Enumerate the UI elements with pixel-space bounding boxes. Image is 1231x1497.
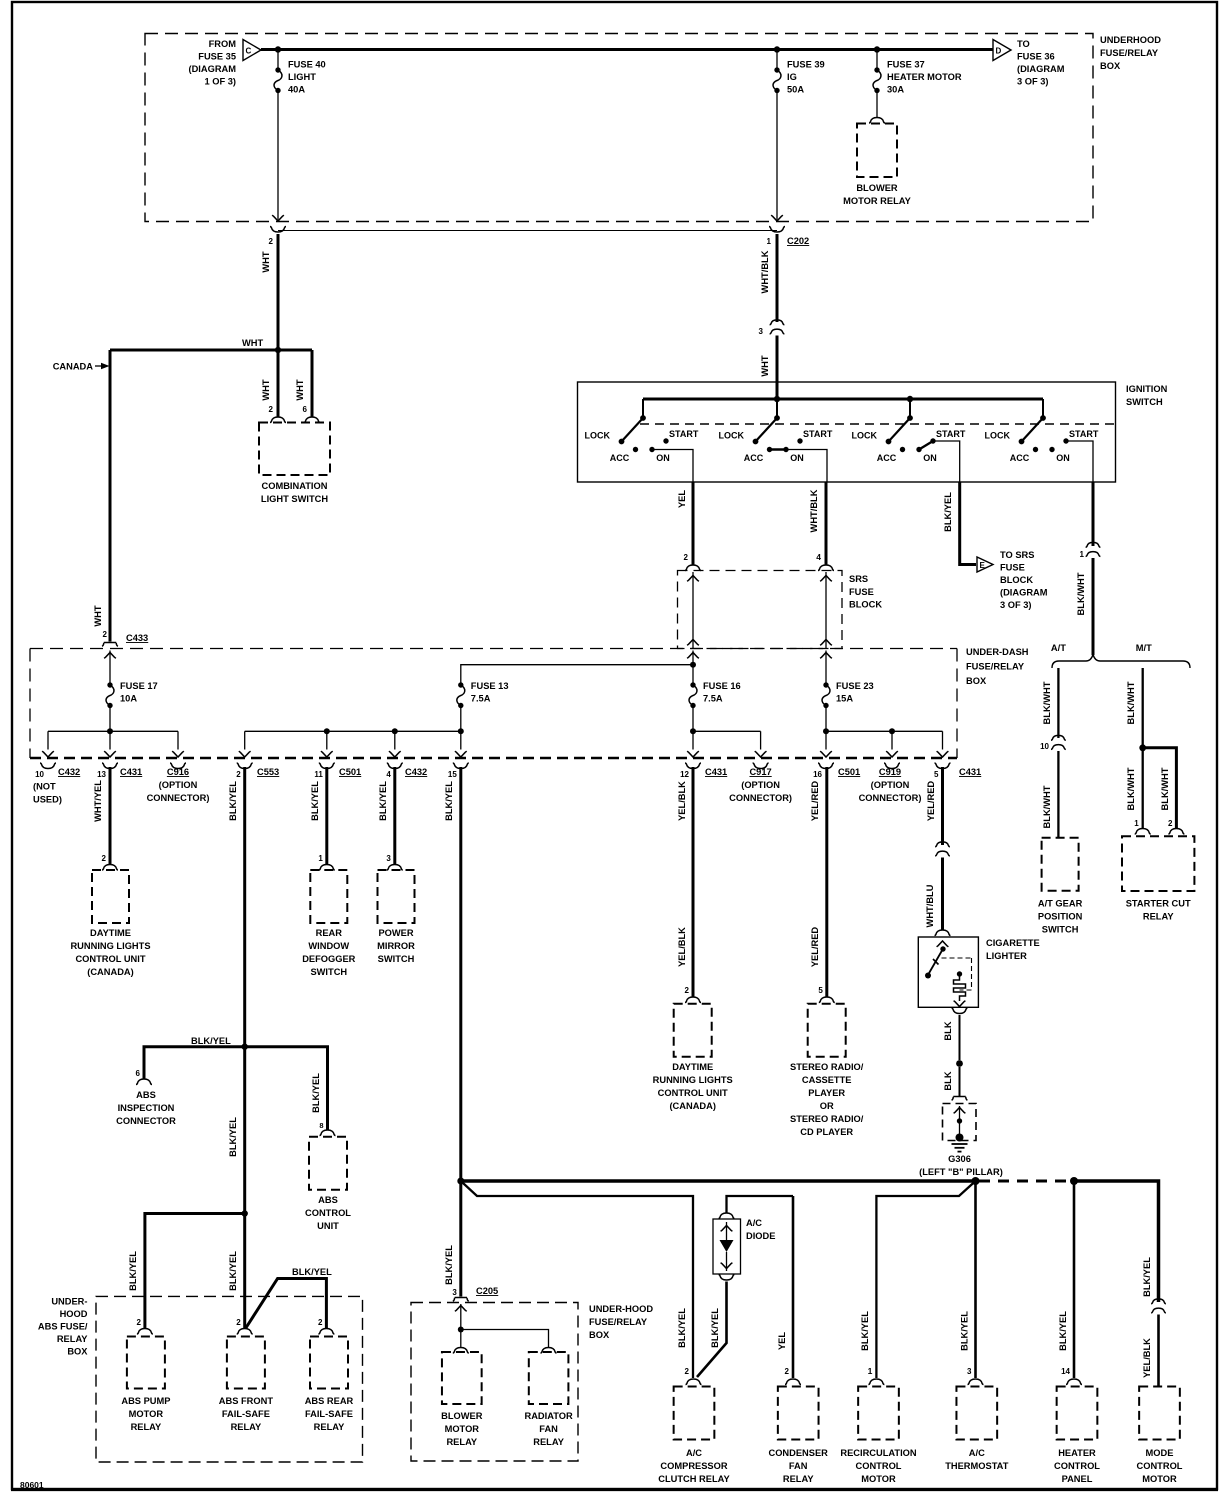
svg-text:G306: G306	[948, 1154, 971, 1164]
svg-text:C432: C432	[405, 767, 427, 777]
svg-text:SWITCH: SWITCH	[1126, 397, 1163, 407]
svg-text:DEFOGGER: DEFOGGER	[302, 954, 355, 964]
svg-text:12: 12	[680, 770, 689, 779]
svg-text:RUNNING LIGHTS: RUNNING LIGHTS	[70, 941, 150, 951]
svg-text:FUSE/RELAY: FUSE/RELAY	[589, 1317, 648, 1327]
svg-text:FUSE 16: FUSE 16	[703, 681, 741, 691]
fuse F40 LIGHT 40A	[274, 50, 326, 95]
svg-text:BLK/WHT: BLK/WHT	[1126, 681, 1136, 724]
condenser fan relay	[768, 1387, 828, 1485]
starter cut relay	[1122, 836, 1194, 921]
svg-text:DAYTIME: DAYTIME	[90, 928, 131, 938]
svg-text:MOTOR: MOTOR	[445, 1424, 480, 1434]
svg-text:1: 1	[868, 1366, 873, 1376]
ground G306 terminal (dashed)	[943, 1104, 977, 1142]
svg-text:15: 15	[448, 770, 457, 779]
svg-text:POSITION: POSITION	[1038, 912, 1083, 922]
fuse F16 7.5A	[687, 651, 741, 735]
svg-text:(DIAGRAM: (DIAGRAM	[1000, 588, 1048, 598]
node M/T branch splice	[1139, 744, 1146, 751]
svg-text:(CANADA): (CANADA)	[87, 967, 133, 977]
svg-text:HEATER MOTOR: HEATER MOTOR	[887, 72, 962, 82]
svg-text:2: 2	[136, 1318, 141, 1327]
svg-text:BOX: BOX	[1100, 61, 1121, 71]
connector triangle C from fuse 35	[243, 40, 261, 61]
stereo radio cassette/CD player	[790, 1004, 864, 1137]
svg-text:3: 3	[759, 327, 764, 336]
svg-text:CONTROL UNIT: CONTROL UNIT	[658, 1088, 728, 1098]
in-line connector mode control motor wire	[1151, 1299, 1166, 1313]
A/C diode	[713, 1213, 741, 1280]
svg-text:YEL/RED: YEL/RED	[810, 781, 820, 822]
svg-text:IGNITION: IGNITION	[1126, 384, 1168, 394]
node ABS relay splice	[242, 1210, 248, 1216]
wire BLK to G306	[943, 1067, 967, 1100]
svg-text:A/C: A/C	[746, 1218, 762, 1228]
svg-text:13: 13	[97, 770, 106, 779]
ignition switch box	[578, 382, 1116, 482]
svg-text:FUSE 37: FUSE 37	[887, 60, 925, 70]
svg-text:LOCK: LOCK	[985, 431, 1011, 441]
wire BLK/YEL to ABS front fail-safe relay pin 2	[228, 1214, 253, 1335]
svg-text:3: 3	[386, 854, 391, 863]
svg-text:LOCK: LOCK	[719, 431, 745, 441]
svg-text:YEL: YEL	[677, 490, 687, 508]
svg-text:BLK/YEL: BLK/YEL	[1058, 1311, 1068, 1351]
svg-text:CONTROL UNIT: CONTROL UNIT	[75, 954, 145, 964]
svg-text:C433: C433	[126, 633, 148, 643]
svg-text:FUSE 13: FUSE 13	[471, 681, 509, 691]
svg-text:2: 2	[269, 405, 274, 414]
wire drop to C919 option connector	[859, 731, 922, 803]
svg-text:C432: C432	[58, 767, 80, 777]
wire ground bus BLK/YEL	[461, 1179, 976, 1183]
wire gang 3 START output	[933, 441, 960, 482]
A/T gear position switch	[1038, 838, 1083, 935]
svg-text:WHT/YEL: WHT/YEL	[93, 780, 103, 822]
svg-text:HOOD: HOOD	[60, 1309, 88, 1319]
svg-text:FUSE 40: FUSE 40	[288, 60, 326, 70]
svg-text:START: START	[803, 429, 833, 439]
svg-text:BLOWER: BLOWER	[441, 1411, 483, 1421]
svg-text:BLK/YEL: BLK/YEL	[677, 1308, 687, 1348]
svg-text:FAIL-SAFE: FAIL-SAFE	[305, 1409, 353, 1419]
svg-text:BOX: BOX	[966, 676, 987, 686]
svg-text:D: D	[996, 47, 1002, 56]
wire fuse 17 distribution	[48, 730, 178, 732]
wire YEL/RED to stereo radio	[810, 767, 835, 1003]
svg-text:(OPTION: (OPTION	[159, 780, 198, 790]
wire fuse 39 down to C202	[771, 91, 783, 222]
svg-text:8: 8	[319, 1121, 323, 1130]
svg-text:MOTOR RELAY: MOTOR RELAY	[843, 196, 911, 206]
node WHT junction	[242, 338, 281, 353]
underhood fuse/relay box (dashed)	[145, 34, 1093, 222]
wire YEL/RED to cigarette lighter	[926, 767, 943, 845]
ground symbol G306	[952, 1144, 968, 1152]
wire to ABS inspection connector pin 6	[136, 1047, 245, 1085]
svg-text:1 OF 3): 1 OF 3)	[204, 77, 236, 87]
wire BLK/YEL C553 pin 2 down	[228, 767, 245, 1047]
heater control panel	[1054, 1387, 1100, 1485]
under-hood ABS fuse/relay box (dashed)	[96, 1296, 363, 1462]
wire drop to C431 pin 12	[680, 731, 727, 779]
diagram number 80601	[20, 1480, 44, 1490]
svg-text:C431: C431	[705, 767, 727, 777]
svg-text:BLK: BLK	[943, 1021, 953, 1040]
svg-text:(NOT: (NOT	[33, 782, 56, 792]
wire BLK/YEL to ABS pump motor relay pin 2	[128, 1214, 245, 1335]
svg-text:BLK/YEL: BLK/YEL	[710, 1308, 720, 1348]
wire BLK/YEL to C205	[444, 1181, 461, 1297]
svg-text:C205: C205	[476, 1286, 498, 1296]
svg-text:FUSE/RELAY: FUSE/RELAY	[1100, 48, 1159, 58]
svg-text:UNDERHOOD: UNDERHOOD	[1100, 35, 1161, 45]
label under-dash fuse/relay box	[966, 647, 1029, 686]
label ignition switch	[1126, 384, 1168, 407]
label SRS fuse block	[849, 574, 882, 610]
svg-text:ACC: ACC	[610, 453, 630, 463]
svg-text:2: 2	[685, 986, 690, 995]
svg-text:STEREO RADIO/: STEREO RADIO/	[790, 1114, 864, 1124]
svg-text:BOX: BOX	[589, 1330, 610, 1340]
wire WHT to combination light switch pin 2	[261, 350, 278, 417]
wire BLK below cigarette lighter	[943, 1008, 968, 1060]
svg-text:FUSE 39: FUSE 39	[787, 60, 825, 70]
svg-text:C553: C553	[257, 767, 279, 777]
label CANADA with arrow	[53, 362, 110, 372]
wire WHT/BLK from C202 pin 1	[760, 234, 777, 322]
label to fuse 36 diagram 3 of 3	[1017, 39, 1065, 87]
svg-text:MOTOR: MOTOR	[129, 1409, 164, 1419]
svg-text:POWER: POWER	[378, 928, 413, 938]
wire WHT/BLK ignition to SRS fuse block pin 4	[809, 482, 834, 571]
fuse F13 7.5A	[457, 681, 509, 734]
wire from SRS row to fuse 13	[461, 665, 693, 685]
wire BLK/YEL pin 15 down to ground bus	[444, 767, 461, 1181]
svg-text:WHT: WHT	[261, 379, 271, 400]
svg-text:TO SRS: TO SRS	[1000, 550, 1034, 560]
svg-text:CONTROL: CONTROL	[856, 1461, 902, 1471]
svg-text:A/T GEAR: A/T GEAR	[1038, 899, 1083, 909]
svg-text:RELAY: RELAY	[57, 1334, 88, 1344]
svg-text:BLK/YEL: BLK/YEL	[1142, 1257, 1152, 1297]
svg-text:ACC: ACC	[1010, 453, 1030, 463]
wire BLK/WHT A/T branch	[1042, 668, 1058, 738]
svg-text:CONNECTOR): CONNECTOR)	[729, 793, 792, 803]
svg-text:THERMOSTAT: THERMOSTAT	[945, 1461, 1008, 1471]
svg-text:1: 1	[767, 237, 772, 246]
wire BLK/WHT to starter cut relay pin 1	[1126, 748, 1151, 834]
svg-text:BLOWER: BLOWER	[856, 183, 898, 193]
wire WHT/BLU to cigarette lighter	[925, 858, 951, 936]
svg-text:BLK/YEL: BLK/YEL	[292, 1267, 332, 1277]
wire gang 2 ON output	[785, 450, 827, 483]
label to SRS fuse block diagram 3 of 3	[1000, 550, 1048, 610]
label cigarette lighter	[986, 938, 1040, 961]
connector C433 pin 2	[102, 630, 148, 646]
svg-text:C202: C202	[787, 236, 809, 246]
svg-text:PANEL: PANEL	[1062, 1474, 1093, 1484]
wire drop to pin 15	[448, 731, 469, 779]
svg-text:11: 11	[314, 770, 323, 779]
svg-text:2: 2	[236, 1318, 241, 1327]
in-line connector 1	[1080, 542, 1101, 559]
ABS rear fail-safe relay	[305, 1337, 354, 1433]
ABS control unit	[305, 1137, 351, 1231]
svg-text:2: 2	[102, 854, 107, 863]
svg-text:ABS: ABS	[318, 1195, 338, 1205]
svg-text:ABS REAR: ABS REAR	[305, 1396, 354, 1406]
wire fuse 37 to blower motor relay	[869, 91, 885, 124]
svg-text:BLK/YEL: BLK/YEL	[960, 1311, 970, 1351]
wire WHT to combination light switch pin 6	[295, 350, 312, 417]
svg-text:OR: OR	[820, 1101, 834, 1111]
svg-text:ABS FRONT: ABS FRONT	[219, 1396, 274, 1406]
svg-text:1: 1	[1080, 550, 1085, 559]
svg-text:UNDER-: UNDER-	[51, 1297, 87, 1307]
svg-text:WHT: WHT	[242, 338, 263, 348]
svg-text:YEL/BLK: YEL/BLK	[1142, 1338, 1152, 1378]
svg-text:BLK/YEL: BLK/YEL	[860, 1311, 870, 1351]
svg-text:YEL/BLK: YEL/BLK	[677, 927, 687, 967]
svg-text:ABS PUMP: ABS PUMP	[121, 1396, 170, 1406]
svg-text:BLOCK: BLOCK	[849, 600, 882, 610]
label G306 left B pillar	[919, 1154, 1003, 1177]
svg-text:RELAY: RELAY	[1143, 912, 1174, 922]
wire BLK/YEL to recirculation control motor pin 1	[860, 1181, 976, 1385]
svg-text:BLK/YEL: BLK/YEL	[191, 1036, 231, 1046]
svg-text:CONTROL: CONTROL	[1137, 1461, 1183, 1471]
wire WHT to ignition switch	[760, 336, 777, 400]
svg-text:TO: TO	[1017, 39, 1030, 49]
connector A/C compressor clutch relay pin 2	[686, 1379, 702, 1385]
svg-text:(CANADA): (CANADA)	[669, 1101, 715, 1111]
svg-text:RUNNING LIGHTS: RUNNING LIGHTS	[653, 1075, 733, 1085]
rear window defogger switch	[302, 870, 355, 977]
svg-text:WHT/BLK: WHT/BLK	[760, 250, 770, 293]
SRS fuse block (dashed)	[678, 571, 843, 649]
svg-text:RECIRCULATION: RECIRCULATION	[840, 1448, 917, 1458]
svg-text:10: 10	[1040, 742, 1049, 751]
wire ignition internal bus	[643, 396, 1043, 402]
wire gang 1 ON output	[652, 450, 693, 483]
svg-text:HEATER: HEATER	[1058, 1448, 1096, 1458]
svg-text:(DIAGRAM: (DIAGRAM	[188, 64, 236, 74]
svg-text:2: 2	[685, 1367, 690, 1376]
svg-text:BLK/YEL: BLK/YEL	[228, 781, 238, 821]
svg-text:ON: ON	[923, 453, 937, 463]
daytime running lights control unit (canada) left	[70, 870, 150, 977]
wire WHT from C202 pin 2	[261, 234, 278, 350]
svg-text:SWITCH: SWITCH	[378, 954, 415, 964]
svg-text:COMBINATION: COMBINATION	[262, 481, 328, 491]
svg-text:BLK/YEL: BLK/YEL	[311, 1073, 321, 1113]
svg-text:COMPRESSOR: COMPRESSOR	[660, 1461, 727, 1471]
wire fuse 40 down to C202 row	[272, 91, 284, 222]
under-hood fuse/relay box bottom (dashed)	[411, 1303, 578, 1462]
svg-text:FAN: FAN	[539, 1424, 558, 1434]
wire BLK/YEL to ABS control unit pin 8	[245, 1047, 336, 1136]
svg-text:3: 3	[967, 1367, 972, 1376]
svg-text:E: E	[980, 561, 986, 570]
wire drop to C432 pin 10 (not used)	[33, 731, 80, 804]
svg-text:DIODE: DIODE	[746, 1231, 775, 1241]
svg-text:BLK/YEL: BLK/YEL	[378, 781, 388, 821]
svg-text:MODE: MODE	[1146, 1448, 1174, 1458]
svg-text:BLK/WHT: BLK/WHT	[1160, 767, 1170, 810]
wire WHT down to C433	[93, 350, 110, 642]
svg-text:BLK/YEL: BLK/YEL	[943, 492, 953, 532]
svg-text:C431: C431	[959, 767, 981, 777]
svg-text:30A: 30A	[887, 85, 904, 95]
wire gang 4 START output	[1066, 441, 1093, 482]
ABS front fail-safe relay	[219, 1337, 274, 1433]
wire fuse 13 distribution	[245, 728, 461, 734]
svg-text:MOTOR: MOTOR	[861, 1474, 896, 1484]
wire SRS block internal right	[820, 572, 832, 649]
svg-text:FUSE 23: FUSE 23	[836, 681, 874, 691]
svg-text:ABS FUSE/: ABS FUSE/	[38, 1322, 88, 1332]
svg-text:BLK/YEL: BLK/YEL	[228, 1251, 238, 1291]
svg-text:2: 2	[1168, 819, 1173, 828]
svg-text:BLK/YEL: BLK/YEL	[444, 1245, 454, 1285]
svg-text:16: 16	[813, 770, 822, 779]
svg-text:CONNECTOR: CONNECTOR	[116, 1116, 176, 1126]
label ABS inspection connector	[116, 1090, 176, 1126]
svg-text:FUSE: FUSE	[849, 587, 874, 597]
node ground bus G306 junction	[972, 1177, 980, 1185]
svg-text:BOX: BOX	[67, 1347, 88, 1357]
svg-text:7.5A: 7.5A	[703, 694, 723, 704]
ignition switch gang 3 (ON-START bridged)	[852, 399, 966, 463]
svg-text:UNIT: UNIT	[317, 1221, 339, 1231]
svg-text:RELAY: RELAY	[446, 1437, 477, 1447]
svg-text:4: 4	[386, 770, 391, 779]
wire BLK/YEL to power mirror switch	[378, 767, 403, 870]
node bus to fuse 40	[275, 46, 281, 52]
svg-text:LOCK: LOCK	[852, 431, 878, 441]
svg-text:5: 5	[818, 986, 823, 995]
under-dash fuse/relay box (dashed)	[30, 649, 957, 759]
wire WHT/YEL to daytime running lights control unit	[93, 767, 118, 870]
svg-text:M/T: M/T	[1136, 643, 1152, 653]
svg-text:FAN: FAN	[789, 1461, 808, 1471]
svg-text:CONNECTOR): CONNECTOR)	[147, 793, 210, 803]
A/C thermostat	[945, 1387, 1008, 1472]
svg-text:WHT/BLK: WHT/BLK	[809, 489, 819, 532]
svg-text:10A: 10A	[120, 694, 137, 704]
node bus to fuse 37	[874, 46, 880, 52]
label under-hood ABS fuse/relay box	[38, 1297, 88, 1357]
wire ground bus dashed section	[979, 1180, 1071, 1183]
wire BLK/WHT ignition gang 4 down	[1092, 482, 1095, 546]
wire BLK/WHT M/T branch	[1126, 668, 1143, 748]
label under-hood fuse/relay box bottom	[589, 1304, 653, 1340]
svg-text:START: START	[936, 429, 966, 439]
svg-text:BLK/WHT: BLK/WHT	[1126, 767, 1136, 810]
fuse F17 10A	[104, 651, 158, 735]
A/T M/T split brace	[1051, 643, 1190, 668]
wire YEL/BLK to mode control motor	[1142, 1315, 1159, 1387]
fuse F23 15A	[820, 651, 874, 735]
ignition switch gang 2 (ACC-ON bridged)	[719, 399, 833, 463]
svg-text:C501: C501	[339, 767, 361, 777]
svg-text:YEL/RED: YEL/RED	[926, 781, 936, 822]
svg-text:C917: C917	[749, 767, 771, 777]
wire SRS block internal left	[687, 572, 699, 649]
svg-text:BLK/YEL: BLK/YEL	[444, 781, 454, 821]
svg-text:STARTER CUT: STARTER CUT	[1126, 899, 1191, 909]
svg-text:YEL/BLK: YEL/BLK	[677, 781, 687, 821]
svg-text:(OPTION: (OPTION	[871, 780, 910, 790]
wire main bus from C to D	[261, 48, 993, 51]
svg-text:LIGHT: LIGHT	[288, 72, 316, 82]
connector C202 pin 1	[767, 227, 810, 247]
svg-text:C431: C431	[120, 767, 142, 777]
wire drop to C553 pin 2	[236, 731, 279, 779]
wire C205 into box	[455, 1304, 467, 1333]
svg-text:USED): USED)	[33, 795, 62, 805]
in-line connector on cigarette lighter wire	[935, 842, 950, 856]
svg-text:RELAY: RELAY	[231, 1422, 262, 1432]
svg-text:PLAYER: PLAYER	[808, 1088, 845, 1098]
svg-text:C916: C916	[167, 767, 189, 777]
svg-text:2: 2	[236, 770, 241, 779]
recirculation control motor	[840, 1387, 917, 1485]
fuse F37 HEATER MOTOR 30A	[873, 50, 962, 95]
svg-text:BLK/YEL: BLK/YEL	[128, 1251, 138, 1291]
svg-text:1: 1	[1134, 819, 1139, 828]
svg-text:WHT: WHT	[93, 605, 103, 626]
svg-text:10: 10	[35, 770, 44, 779]
daytime running lights control unit (canada) right	[653, 1004, 733, 1111]
connector C205 pin 3	[452, 1286, 498, 1301]
svg-text:CASSETTE: CASSETTE	[802, 1075, 852, 1085]
in-line connector 3	[759, 320, 785, 336]
combination light switch	[259, 423, 330, 505]
svg-text:CONTROL: CONTROL	[1054, 1461, 1100, 1471]
svg-text:SWITCH: SWITCH	[310, 967, 347, 977]
wire BLK/WHT to A/T gear position switch	[1042, 751, 1058, 838]
svg-text:BLK/WHT: BLK/WHT	[1042, 681, 1052, 724]
connector triangle D to fuse 36	[993, 40, 1011, 61]
svg-text:2: 2	[785, 1367, 790, 1376]
wire fuse 16 distribution	[693, 730, 761, 732]
svg-text:WHT/BLU: WHT/BLU	[925, 884, 935, 927]
svg-text:3: 3	[452, 1288, 457, 1297]
svg-text:3 OF 3): 3 OF 3)	[1017, 77, 1049, 87]
ignition switch gang dashed link line	[640, 423, 1115, 425]
svg-text:A/C: A/C	[686, 1448, 702, 1458]
connector C202 pin 2 (left)	[269, 227, 286, 247]
svg-text:BLOCK: BLOCK	[1000, 575, 1033, 585]
svg-text:WHT: WHT	[261, 251, 271, 272]
svg-text:6: 6	[136, 1069, 141, 1078]
svg-text:UNDER-DASH: UNDER-DASH	[966, 647, 1029, 657]
wire drop to C917 option connector	[729, 731, 792, 803]
svg-text:RADIATOR: RADIATOR	[524, 1411, 572, 1421]
svg-text:BLK/WHT: BLK/WHT	[1042, 785, 1052, 828]
wire condenser fan relay feed	[727, 1196, 794, 1213]
connector pins combination light switch	[270, 417, 320, 423]
svg-text:C501: C501	[838, 767, 860, 777]
svg-text:50A: 50A	[787, 85, 804, 95]
svg-text:2: 2	[269, 237, 274, 246]
svg-text:ON: ON	[1056, 453, 1070, 463]
svg-text:STEREO RADIO/: STEREO RADIO/	[790, 1062, 864, 1072]
ignition switch gang 4	[985, 399, 1099, 463]
